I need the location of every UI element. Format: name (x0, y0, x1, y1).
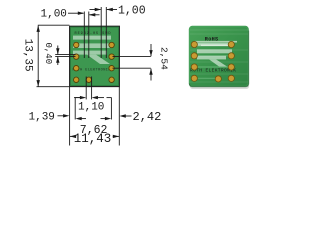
watermark R logo (drawing) (73, 36, 113, 64)
svg-text:1,00: 1,00 (41, 8, 67, 20)
2,42 arrow shaft (124, 115, 131, 117)
13,35 up arrowhead (37, 25, 40, 32)
opposed arrow shaft (left pair, pointing left) (89, 14, 99, 16)
2,54 arrow shafts (150, 44, 152, 56)
svg-text:13,35: 13,35 (22, 39, 34, 72)
svg-text:11,43: 11,43 (74, 132, 112, 146)
1,39 arrow shaft (58, 115, 65, 117)
svg-text:2,54: 2,54 (159, 47, 170, 70)
photo traces (light horizontal) (197, 45, 229, 79)
1,39 arrowhead (63, 114, 69, 117)
1,10 left arrowhead (92, 96, 98, 99)
PCB board outline (drawing) (70, 26, 120, 86)
7,62 arrow shafts (80, 118, 86, 120)
11,43 arrow shafts (70, 135, 76, 137)
svg-text:0,40: 0,40 (43, 43, 53, 65)
photo pads right column (228, 41, 234, 47)
top-right 1,00 arrow shaft (107, 9, 117, 11)
2,54 extension lines (113, 56, 151, 58)
photo trace band under RoHS (195, 41, 237, 46)
0,40 down arrowhead (56, 48, 59, 54)
0,40 arrows shafts (57, 46, 59, 55)
pad (drawing): bottom middle (86, 77, 91, 82)
svg-text:RoHS: RoHS (205, 36, 219, 42)
dimension texts (22, 4, 170, 145)
2,54 up arrowhead (149, 68, 152, 74)
right pair arrow shaft (pointing right) (90, 9, 101, 11)
13,35 down arrowhead (37, 80, 40, 87)
svg-text:1,39: 1,39 (29, 111, 55, 123)
bottom: right edge ext line (118, 87, 120, 146)
pads (drawing): right column (109, 42, 114, 47)
7,62 ticks at top of ext lines (75, 97, 80, 99)
svg-text:1,10: 1,10 (78, 101, 104, 113)
photo shadow (190, 84, 249, 89)
photo watermark R logo (197, 43, 232, 67)
photo pad bottom middle (215, 76, 221, 82)
11,43 right arrowhead (113, 135, 119, 138)
top-left 1,00 arrow shaft (68, 12, 84, 14)
top extension lines (83, 12, 85, 59)
bottom: left edge ext line (69, 87, 71, 146)
7,62 right arrowhead (105, 117, 111, 120)
top-left 1,00 arrowhead (78, 12, 85, 15)
left pair opposed arrowhead (points left at x=88.8) (89, 13, 96, 16)
7,62 ext lines (74, 97, 76, 119)
photo pads left column (191, 41, 234, 82)
13,35 extension lines (horizontal) (38, 24, 70, 26)
1,10 right arrowhead (80, 96, 86, 99)
svg-text:RE932-05 SMD: RE932-05 SMD (75, 32, 111, 36)
photo PCB board (189, 26, 249, 87)
11,43 left arrowhead (70, 135, 76, 138)
arrowheads (37, 8, 153, 138)
top-right 1,00 arrowhead (points left at x=106.3) (106, 8, 113, 11)
photo surface streaks (190, 30, 248, 82)
0,40 pad edge lines (55, 54, 75, 56)
svg-text:1,00: 1,00 (118, 4, 146, 17)
1,10 ext lines (85, 77, 87, 100)
0,40 up arrowhead (56, 57, 59, 63)
svg-text:2,42: 2,42 (133, 110, 162, 124)
1,10 arrow shafts (74, 97, 82, 99)
7,62 left arrowhead (75, 117, 81, 120)
13,35 dimension line (37, 26, 39, 87)
pads (drawing): left column (74, 42, 115, 82)
2,54 down arrowhead (149, 50, 152, 56)
2,42 arrowhead (120, 114, 126, 117)
right pair arrowhead (points right at x=101.2) (95, 8, 102, 11)
